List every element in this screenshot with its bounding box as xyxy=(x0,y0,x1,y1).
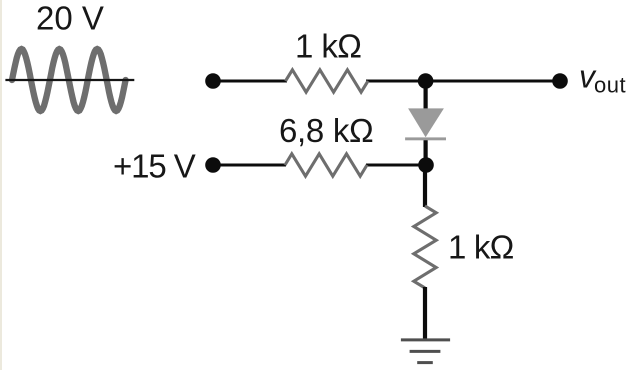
svg-text:1 kΩ: 1 kΩ xyxy=(295,28,361,65)
svg-text:+15 V: +15 V xyxy=(113,148,196,185)
svg-text:20 V: 20 V xyxy=(36,0,104,37)
svg-text:6,8 kΩ: 6,8 kΩ xyxy=(279,112,373,149)
svg-text:1 kΩ: 1 kΩ xyxy=(448,229,514,266)
svg-text:out: out xyxy=(594,73,626,98)
